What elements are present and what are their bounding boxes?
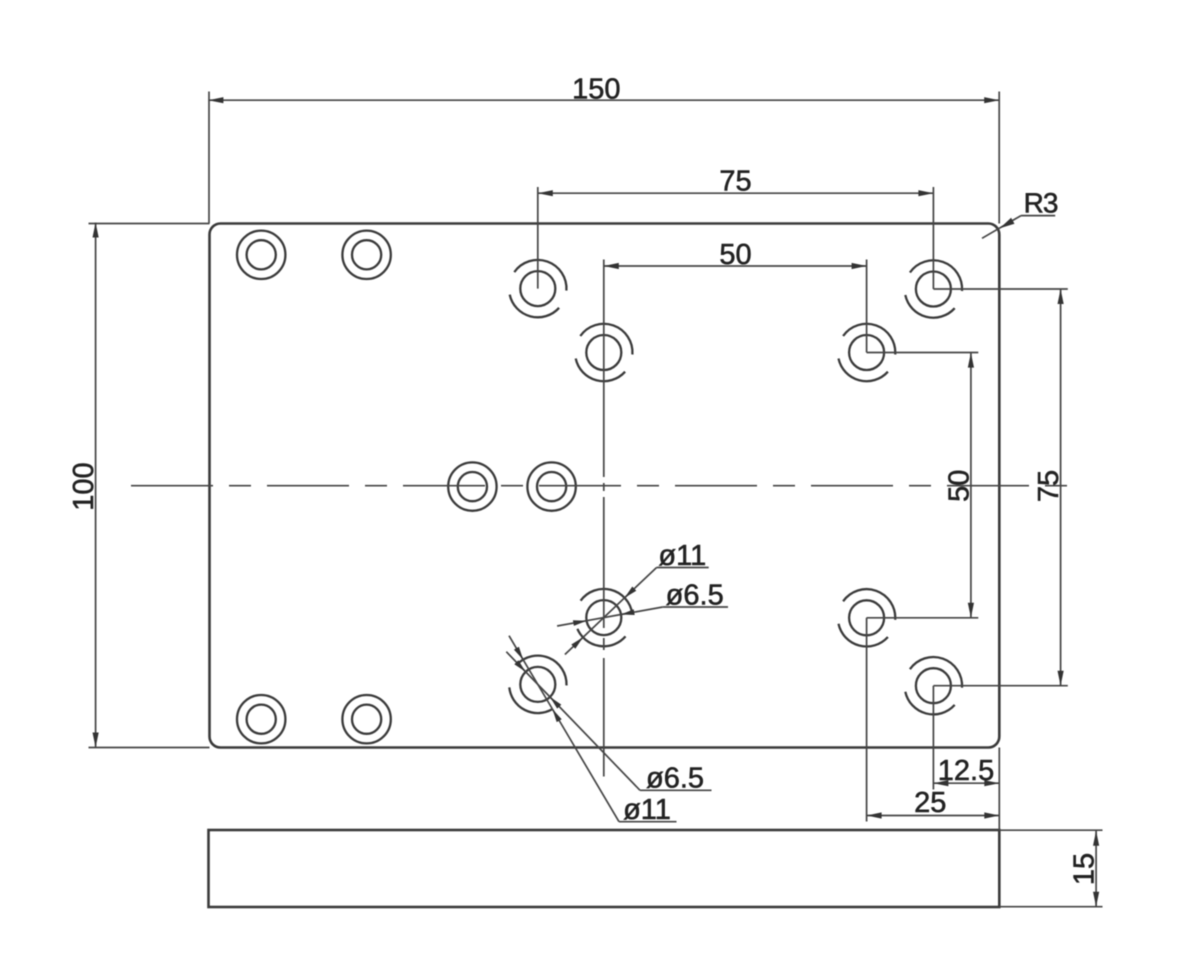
diameter label o11 for hole H: [509, 636, 677, 826]
counterbore hole E (o6.5 thru, o11 cbore): [839, 589, 896, 646]
dimension 12.5 (hole F column to right edge): [933, 686, 999, 830]
diameter label o6.5 for hole H: [506, 652, 711, 795]
counterbore hole B (o6.5 thru, o11 cbore): [576, 324, 633, 381]
dimension 150 (top width): [208, 74, 999, 224]
dimension 75 (top, hole A to hole C): [538, 166, 934, 289]
svg-text:R3: R3: [1024, 188, 1058, 219]
dimension 50 (top, hole B to hole D): [604, 239, 867, 353]
top-left hole 1: [237, 231, 285, 279]
dimension 15 (side view thickness): [999, 830, 1102, 907]
center hole 2: [527, 462, 575, 510]
svg-text:50: 50: [719, 239, 751, 271]
counterbore hole C (o6.5 thru, o11 cbore): [905, 260, 962, 317]
counterbore hole D (o6.5 thru, o11 cbore): [839, 324, 896, 381]
counterbore hole H (o6.5 thru, o11 cbore): [509, 656, 566, 713]
svg-text:15: 15: [1069, 853, 1101, 885]
horizontal centerline: [131, 485, 1079, 487]
plate outline (top view, 150x100, R3 corners): [210, 224, 1000, 748]
svg-text:75: 75: [1033, 470, 1065, 502]
diameter label o6.5 for hole G: [557, 580, 728, 627]
top-left hole 2: [342, 231, 390, 279]
dimension 50 (right, hole D to hole E): [867, 353, 979, 618]
counterbore hole G (o6.5 thru, o11 cbore): [577, 589, 632, 646]
svg-text:12.5: 12.5: [938, 755, 994, 787]
svg-text:150: 150: [572, 74, 620, 106]
dimension 25 (hole E column to right edge): [867, 618, 1000, 822]
svg-text:75: 75: [719, 166, 751, 198]
counterbore hole A (o6.5 thru, o11 cbore): [510, 260, 567, 317]
side view plate (150x15): [209, 830, 1000, 907]
vertical centerline through holes B and G: [603, 260, 605, 777]
center hole 1: [448, 462, 496, 510]
dimension 100 (left height): [68, 223, 210, 748]
svg-text:50: 50: [943, 470, 975, 502]
bottom-left hole 1: [237, 695, 285, 743]
diameter label o11 for hole G: [565, 540, 709, 655]
bottom-left hole 2: [342, 695, 390, 743]
svg-text:25: 25: [914, 787, 946, 819]
counterbore hole F (o6.5 thru, o11 cbore): [905, 657, 962, 714]
R3 corner radius callout: [982, 188, 1058, 239]
svg-text:100: 100: [68, 462, 100, 510]
dimension 75 (right, hole C to hole F): [933, 289, 1067, 686]
